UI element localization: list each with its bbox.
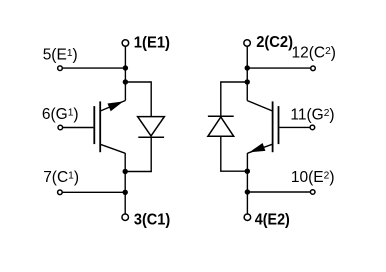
IGBT Q1 channel bar [99, 101, 101, 152]
svg-text:7(C1): 7(C1) [43, 169, 79, 186]
wire: to pin 12 [247, 67, 313, 69]
terminal 6(G1) [58, 125, 63, 130]
svg-text:4(E2): 4(E2) [255, 212, 290, 229]
terminal 10(E2) [310, 190, 315, 195]
node: junction dot diode bottom right [245, 169, 250, 174]
node: junction dot at pin7 [123, 190, 128, 195]
wire: diode branch top horizontal right [221, 81, 247, 83]
node: junction dot at C2 bus / pin12 [245, 65, 250, 70]
svg-text:1(E1): 1(E1) [134, 35, 170, 52]
wire: diode branch bottom vertical [150, 137, 152, 171]
wire: to pin 7 [60, 191, 125, 193]
wire: diode branch top horizontal [125, 81, 151, 83]
terminal 12(C2) [311, 66, 316, 71]
wire: to pin 5 [60, 67, 125, 69]
IGBT Q2 collector lead (top diagonal) [247, 101, 272, 111]
diode D1 (free-wheel, anode top) [138, 117, 165, 136]
node: junction dot at pin10 [245, 189, 250, 194]
wire: diode branch bottom vertical right [220, 136, 222, 171]
terminal 5(E1) [58, 66, 63, 71]
terminal 11(G2) [310, 125, 315, 130]
terminal 1(E1) [122, 40, 128, 47]
terminal 7(C1) [58, 190, 63, 195]
wire: main vertical bottom (C1 bus) [124, 153, 126, 214]
wire: gate lead pin 6 [60, 127, 93, 129]
wire: main vertical bottom (E2 bus) [246, 153, 248, 214]
IGBT Q1 emitter arrow [108, 101, 124, 111]
terminal 2(C2) [244, 40, 251, 47]
terminal 4(E2) [244, 214, 251, 221]
IGBT Q2 gate bar [278, 106, 280, 144]
node: junction dot at E1 bus / pin5 [123, 65, 128, 70]
wire: diode branch top vertical [150, 81, 152, 117]
node: junction dot at diode branch top [123, 79, 128, 84]
svg-text:5(E1): 5(E1) [43, 47, 78, 64]
wire: diode branch bottom horizontal right [220, 170, 247, 172]
svg-text:6(G1): 6(G1) [42, 106, 79, 123]
IGBT Q1 collector lead (bottom diagonal) [100, 144, 125, 153]
node: junction dot diode bottom [123, 169, 128, 174]
svg-text:3(C1): 3(C1) [134, 212, 170, 229]
IGBT Q2 channel bar [272, 101, 274, 152]
IGBT Q1 emitter lead (top diagonal) [101, 101, 126, 111]
wire: main vertical top (E1 bus) [124, 46, 126, 100]
IGBT Q2 emitter arrow [249, 143, 265, 152]
terminal 3(C1) [122, 214, 129, 221]
IGBT Q2 emitter lead (bottom diagonal) [248, 144, 273, 153]
wire: diode branch bottom horizontal [125, 171, 152, 173]
wire: gate lead pin 11 [279, 126, 312, 128]
wire: main vertical top (C2 bus) [246, 46, 248, 100]
diode D2 (free-wheel, cathode top) [208, 115, 234, 117]
wire: diode branch top vertical right [220, 81, 222, 116]
IGBT Q1 gate bar [93, 106, 95, 144]
wire: to pin 10 [247, 191, 312, 193]
node: junction dot at diode branch top right [245, 79, 250, 84]
svg-text:2(C2): 2(C2) [256, 34, 293, 51]
